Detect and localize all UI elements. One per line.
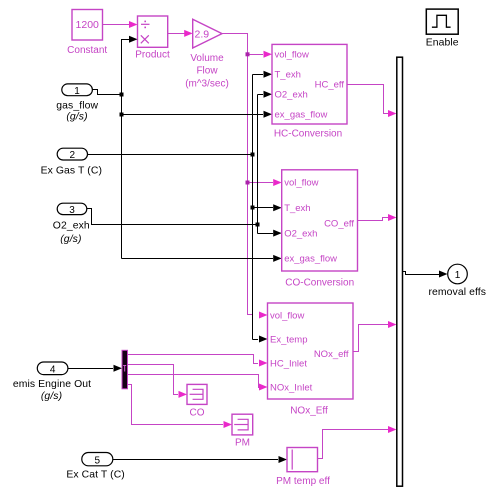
wire O2_exh vertical trunk bbox=[257, 95, 259, 234]
wire vol_flow net from gain output bbox=[222, 34, 268, 319]
lookup block PM temp eff bbox=[276, 448, 330, 488]
svg-text:ex_gas_flow: ex_gas_flow bbox=[284, 254, 337, 265]
svg-text:Enable: Enable bbox=[426, 38, 459, 49]
node O2_exh junction bbox=[256, 223, 260, 227]
svg-text:PM: PM bbox=[235, 438, 250, 449]
svg-text:2: 2 bbox=[70, 150, 76, 161]
product block U Product (divide) bbox=[135, 16, 170, 61]
svg-text:1200: 1200 bbox=[76, 19, 100, 31]
svg-text:HC_eff: HC_eff bbox=[315, 79, 345, 90]
svg-text:HC_Inlet: HC_Inlet bbox=[270, 358, 307, 369]
svg-text:PM temp eff: PM temp eff bbox=[276, 476, 330, 487]
wire emis Engine Out to demux bbox=[68, 365, 122, 372]
svg-text:T_exh: T_exh bbox=[275, 70, 301, 81]
svg-text:(g/s): (g/s) bbox=[60, 234, 81, 245]
wire T_exh vertical trunk bbox=[252, 75, 254, 340]
svg-text:vol_flow: vol_flow bbox=[275, 50, 309, 61]
wire Constant to Product bbox=[103, 21, 138, 28]
svg-text:1: 1 bbox=[455, 270, 461, 281]
subsystem HC-Conversion bbox=[272, 44, 347, 139]
svg-text:CO-Conversion: CO-Conversion bbox=[285, 278, 354, 289]
wire PM temp eff to mux bbox=[318, 426, 397, 459]
subsystem CO-Conversion bbox=[282, 170, 358, 289]
svg-text:removal effs: removal effs bbox=[428, 287, 486, 298]
svg-text:Product: Product bbox=[135, 50, 170, 61]
wire Ex Cat T to PM temp eff bbox=[113, 456, 287, 463]
gain U Volume Flow 2.9 bbox=[185, 19, 229, 89]
svg-text:NOx_Eff: NOx_Eff bbox=[290, 406, 328, 417]
wire gas_flow vertical trunk bbox=[122, 40, 130, 259]
port In3 O2_exh bbox=[53, 203, 90, 245]
svg-text:Ex_temp: Ex_temp bbox=[270, 334, 308, 345]
node gas_flow junction B bbox=[120, 113, 124, 117]
svg-text:vol_flow: vol_flow bbox=[284, 178, 318, 189]
mux Mux bar bbox=[397, 57, 403, 486]
wire CO_eff to mux bbox=[358, 214, 397, 221]
svg-text:ex_gas_flow: ex_gas_flow bbox=[275, 110, 328, 121]
svg-text:5: 5 bbox=[95, 455, 101, 466]
wire T_exh branch to CO T_exh bbox=[253, 204, 282, 211]
svg-text:gas_flow: gas_flow bbox=[56, 100, 98, 111]
wire mux to removal effs bbox=[403, 271, 448, 278]
svg-text:O2_exh: O2_exh bbox=[53, 220, 90, 231]
wire Ex Gas T port to T_exh vertical bbox=[88, 154, 253, 156]
terminator PM bbox=[232, 414, 253, 448]
wire T_exh branch to HC T_exh bbox=[253, 71, 273, 78]
wire vol_flow branch to HC-Conversion bbox=[248, 51, 273, 58]
svg-text:(g/s): (g/s) bbox=[41, 391, 62, 402]
wire gas_flow branch to HC ex_gas_flow bbox=[122, 111, 273, 118]
svg-text:emis Engine Out: emis Engine Out bbox=[13, 379, 91, 390]
node vol_flow junction 1 bbox=[246, 52, 250, 56]
wire gas_flow port to vertical net bbox=[92, 90, 121, 95]
enable block Enable bbox=[426, 9, 459, 48]
wire O2_exh port to vertical bbox=[87, 209, 258, 225]
port In1 gas_flow bbox=[56, 84, 98, 123]
wire demux out3 to NOx NOx_Inlet bbox=[128, 375, 268, 391]
port In2 Ex Gas T bbox=[41, 148, 102, 176]
port Out1 removal effs bbox=[428, 264, 486, 298]
svg-text:O2_exh: O2_exh bbox=[275, 90, 308, 101]
svg-text:CO_eff: CO_eff bbox=[324, 218, 354, 229]
node gas_flow junction A bbox=[120, 93, 124, 97]
svg-text:vol_flow: vol_flow bbox=[270, 310, 304, 321]
demux Demux bar bbox=[122, 350, 128, 389]
wire O2_exh branch to CO O2_exh bbox=[258, 230, 282, 237]
svg-text:4: 4 bbox=[50, 365, 56, 376]
port In5 Ex Cat T bbox=[66, 453, 125, 481]
svg-text:3: 3 bbox=[69, 205, 75, 216]
wire demux out2 to CO terminator bbox=[128, 365, 188, 398]
subsystem NOx_Eff bbox=[268, 303, 354, 417]
svg-text:T_exh: T_exh bbox=[284, 203, 310, 214]
wire Product to Volume Flow gain bbox=[168, 30, 193, 37]
svg-text:(g/s): (g/s) bbox=[66, 112, 87, 123]
wire demux out4 to PM terminator bbox=[128, 385, 233, 429]
svg-text:Ex Cat T (C): Ex Cat T (C) bbox=[66, 469, 125, 480]
wire NOx_eff to mux bbox=[353, 321, 397, 352]
wire demux out1 to NOx HC_Inlet bbox=[128, 355, 268, 367]
wire T_exh branch to NOx Ex_temp bbox=[253, 336, 268, 343]
node T_exh junction B bbox=[251, 206, 255, 210]
wire vol_flow branch to CO-Conversion bbox=[248, 179, 282, 186]
constant block Constant value 1200 bbox=[67, 10, 107, 57]
wire gas_flow branch to CO ex_gas_flow bbox=[122, 255, 282, 262]
svg-text:NOx_eff: NOx_eff bbox=[314, 349, 349, 360]
svg-text:O2_exh: O2_exh bbox=[284, 228, 317, 239]
svg-text:CO: CO bbox=[190, 408, 205, 419]
svg-text:(m^3/sec): (m^3/sec) bbox=[185, 79, 229, 90]
svg-text:Flow: Flow bbox=[196, 66, 218, 77]
svg-text:Constant: Constant bbox=[67, 45, 107, 56]
wire gas_flow arrow into Product bbox=[129, 36, 138, 43]
svg-text:Ex Gas T (C): Ex Gas T (C) bbox=[41, 165, 102, 176]
node vol_flow junction 2 bbox=[246, 181, 250, 185]
port In4 emis Engine Out bbox=[13, 362, 91, 402]
wire HC_eff to mux bbox=[347, 85, 397, 118]
svg-text:Volume: Volume bbox=[190, 53, 224, 64]
terminator CO bbox=[187, 384, 207, 418]
svg-text:1: 1 bbox=[74, 86, 80, 97]
svg-text:2.9: 2.9 bbox=[195, 29, 210, 41]
node T_exh junction A bbox=[251, 153, 255, 157]
wire O2_exh branch to HC O2_exh bbox=[258, 91, 273, 98]
svg-text:HC-Conversion: HC-Conversion bbox=[274, 129, 342, 140]
svg-text:NOx_Inlet: NOx_Inlet bbox=[270, 382, 313, 393]
